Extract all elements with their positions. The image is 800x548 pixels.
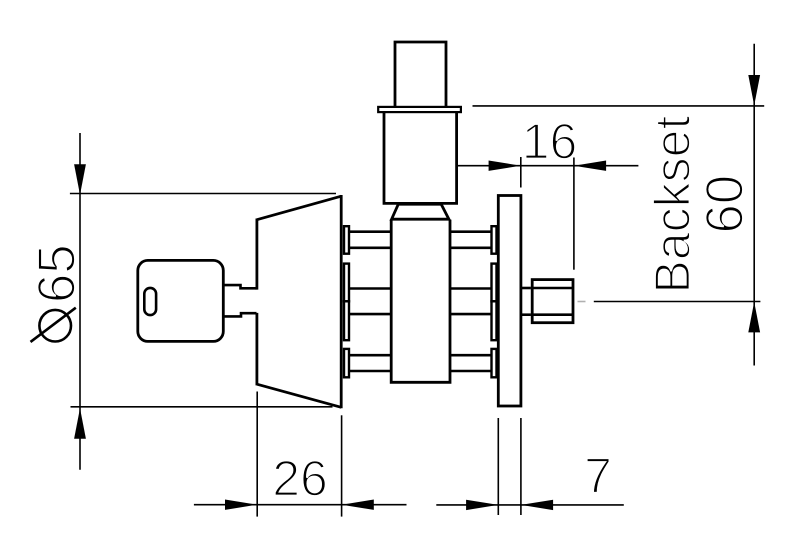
svg-text:26: 26 <box>272 451 328 507</box>
svg-text:16: 16 <box>522 114 578 170</box>
svg-text:65: 65 <box>28 244 87 303</box>
svg-text:Backset: Backset <box>645 116 701 294</box>
svg-text:7: 7 <box>584 448 612 504</box>
svg-text:60: 60 <box>696 175 755 234</box>
